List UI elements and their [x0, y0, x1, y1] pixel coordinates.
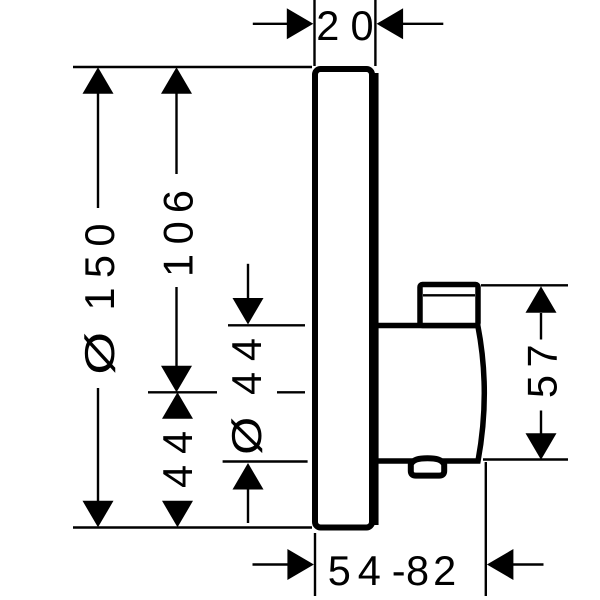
- svg-text:4: 4: [154, 465, 201, 488]
- svg-text:4: 4: [154, 431, 201, 454]
- svg-text:5: 5: [76, 255, 123, 278]
- svg-text:1: 1: [76, 287, 123, 310]
- svg-text:2: 2: [316, 2, 339, 49]
- svg-text:-: -: [392, 547, 406, 594]
- svg-text:4: 4: [358, 547, 381, 594]
- svg-text:7: 7: [519, 344, 566, 367]
- svg-text:0: 0: [350, 2, 373, 49]
- svg-text:0: 0: [154, 221, 201, 244]
- svg-text:6: 6: [154, 190, 201, 213]
- svg-text:5: 5: [328, 547, 351, 594]
- svg-text:2: 2: [433, 547, 456, 594]
- svg-text:0: 0: [76, 224, 123, 247]
- svg-text:1: 1: [154, 254, 201, 277]
- svg-text:Ø: Ø: [77, 332, 123, 375]
- svg-text:5: 5: [519, 375, 566, 398]
- svg-text:4: 4: [223, 372, 270, 395]
- svg-text:Ø: Ø: [224, 417, 271, 455]
- svg-text:4: 4: [223, 338, 270, 361]
- svg-text:8: 8: [406, 547, 429, 594]
